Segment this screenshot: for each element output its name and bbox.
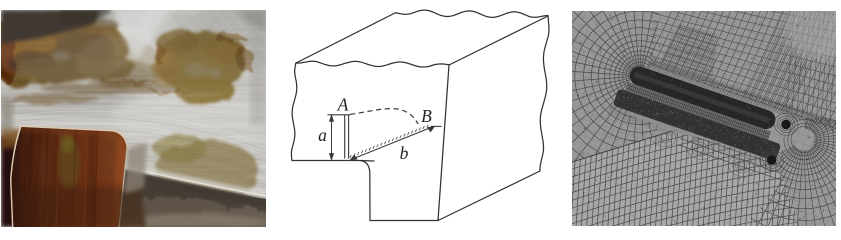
dark top-left corner xyxy=(1,10,112,44)
block top back wavy edge xyxy=(395,10,548,17)
dark left region xyxy=(1,136,26,227)
svg-text:B: B xyxy=(421,106,432,126)
bottom edge xyxy=(370,220,438,222)
rings around holes xyxy=(757,110,801,174)
block top right edge xyxy=(449,16,548,65)
gap band between slot and lower band xyxy=(626,83,771,140)
dashed crack-front curve from A to B xyxy=(350,109,418,124)
fillet and notch vertical xyxy=(360,161,370,221)
dark rim band xyxy=(112,167,266,227)
block left wavy edge xyxy=(291,63,296,160)
block right wavy edge xyxy=(540,16,549,171)
dimension b arrow line xyxy=(351,126,442,160)
dense line bundle converging to slot end xyxy=(744,0,841,114)
hatched crack line ticks xyxy=(350,125,428,158)
fine hatch band above slot xyxy=(647,58,841,140)
svg-text:a: a xyxy=(318,125,327,145)
svg-text:A: A xyxy=(337,95,349,115)
halo above slot xyxy=(608,51,806,175)
notch slot lines xyxy=(345,115,349,159)
front right vertical edge xyxy=(438,65,449,221)
bright streak xyxy=(112,163,266,195)
rust patches xyxy=(0,14,259,204)
top tick at A level xyxy=(328,114,351,116)
dimension a arrow line xyxy=(330,115,334,159)
boundary line of lower block xyxy=(572,131,672,162)
dark hole dot 2 xyxy=(767,155,777,165)
wooden plank xyxy=(10,126,128,228)
transition eye fans in lower block xyxy=(647,122,757,180)
block top-left edge xyxy=(296,13,395,63)
svg-text:b: b xyxy=(400,143,409,163)
dark slot band xyxy=(613,62,791,162)
shoulder line xyxy=(292,160,374,163)
right face bottom diagonal xyxy=(438,171,540,221)
second dark band xyxy=(613,88,781,161)
block front top wavy edge xyxy=(296,61,449,67)
middle schematic diagram of cracked block xyxy=(291,10,549,220)
dark hole dot 1 xyxy=(781,120,791,130)
right edge dense vertical lines xyxy=(785,11,838,130)
photograph panel xyxy=(0,0,315,233)
scattered dark mesh nodes xyxy=(574,15,834,224)
